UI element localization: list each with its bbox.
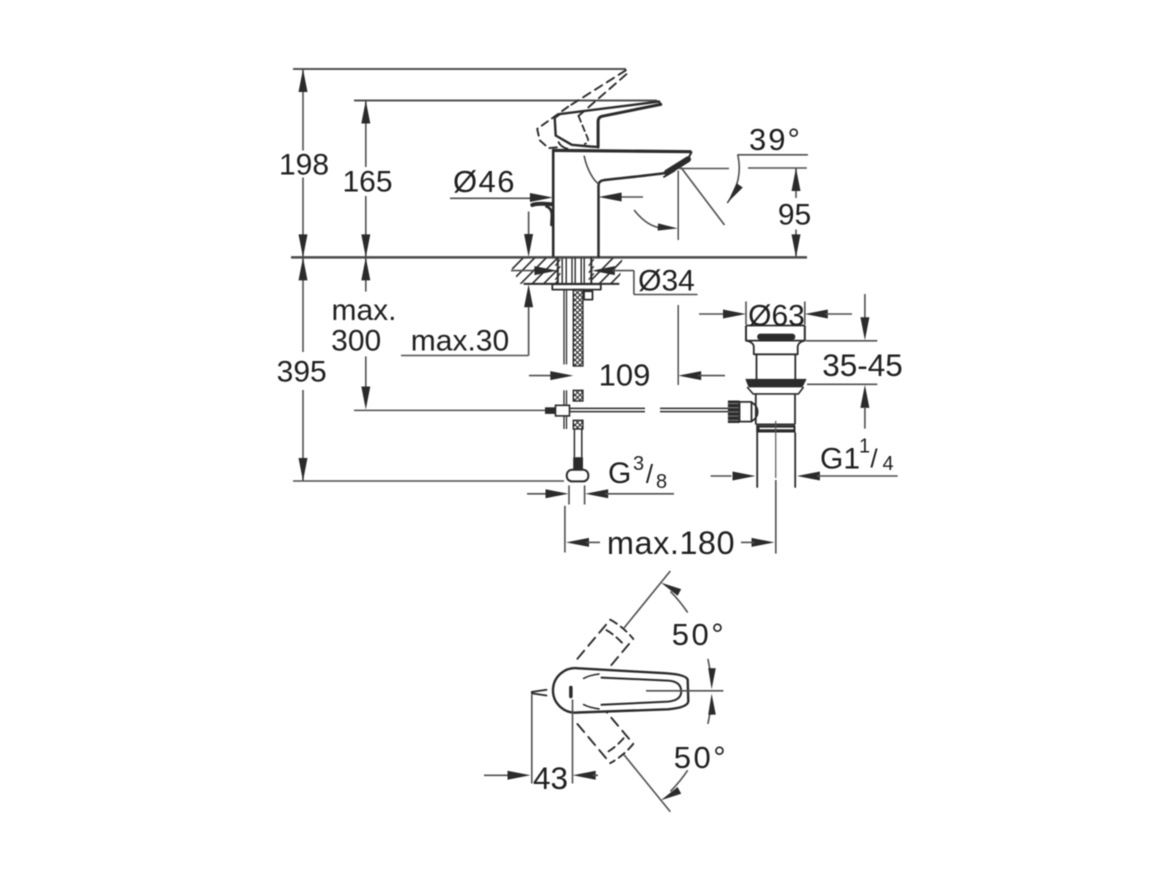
bottom view handle inner outline — [602, 678, 682, 705]
deck hatching right — [586, 257, 649, 286]
39 degree arc with arrow — [728, 155, 743, 203]
svg-text:/: / — [646, 459, 654, 489]
label 39 degrees with underline — [738, 122, 808, 157]
svg-text:1: 1 — [859, 436, 870, 458]
label 50 degrees upper — [672, 617, 726, 652]
water stream diagonal line — [681, 168, 725, 226]
reference line: mounting deck surface — [291, 256, 807, 259]
hose compression fitting — [573, 457, 583, 470]
dimension 43 arrows — [484, 771, 598, 780]
dimension 395 vertical line with arrows — [299, 257, 308, 481]
dimension arrows Ø34 at shank — [511, 266, 698, 294]
faucet spout underside and body right edge — [599, 173, 667, 257]
hose end tube — [574, 429, 581, 457]
svg-text:300: 300 — [331, 325, 381, 358]
label max. 300 — [331, 294, 396, 358]
deck slab hatched left part — [524, 283, 620, 285]
label 165 — [342, 166, 392, 199]
drain knurled adjuster knob — [728, 401, 740, 424]
label 109 — [599, 358, 651, 393]
threaded shank through deck — [555, 257, 594, 284]
lower 50 degree boundary line — [624, 755, 670, 812]
faucet body left edge — [552, 150, 555, 256]
svg-text:/: / — [870, 444, 878, 474]
drain body tube — [756, 394, 795, 424]
dimension 43 extension lines — [532, 695, 573, 784]
svg-text:35-45: 35-45 — [822, 347, 903, 383]
svg-text:G1: G1 — [820, 443, 860, 476]
mounting nut — [584, 291, 593, 299]
dimension max.300 vertical line with arrows — [361, 257, 370, 409]
label G1 1/4 — [820, 436, 894, 476]
drain coupling dark band — [756, 425, 795, 432]
handle lever bottom edge and stem — [598, 104, 661, 147]
reference line: top of raised handle (198) — [293, 68, 626, 70]
label max.180 — [607, 525, 735, 561]
svg-text:43: 43 — [533, 760, 568, 796]
drain upper body — [757, 354, 796, 379]
drain cap dark — [757, 334, 795, 340]
drain rubber washer dark band — [746, 379, 806, 387]
drain adjuster housing — [740, 402, 758, 422]
svg-text:max.30: max.30 — [411, 325, 509, 358]
dimension 165 vertical line with arrows — [361, 101, 370, 258]
label G3/8 — [608, 453, 667, 493]
reference line 95 top — [748, 167, 807, 169]
label max.30 — [411, 325, 509, 358]
bottom view front tab — [532, 690, 547, 696]
faucet spout tip face — [687, 152, 692, 161]
svg-text:50°: 50° — [672, 617, 726, 652]
raised handle grip dashed outline — [537, 107, 568, 149]
spout swivel arc with arrow — [635, 211, 678, 231]
pop-up pull rod vertical — [564, 290, 567, 429]
svg-text:165: 165 — [342, 166, 392, 199]
svg-text:198: 198 — [279, 149, 329, 182]
dimension 109 arrows — [529, 371, 725, 380]
upper 50 degree boundary line — [624, 571, 670, 628]
mounting flange plate under deck — [552, 284, 601, 289]
svg-text:Ø46: Ø46 — [453, 164, 516, 199]
svg-text:max.180: max.180 — [607, 525, 735, 561]
svg-text:max.: max. — [331, 294, 396, 327]
label 395 — [277, 356, 327, 389]
upper 50 degree arc with arrows — [661, 583, 716, 690]
drain centerline — [775, 421, 777, 478]
bottom view handle outline keyhole shape — [553, 668, 688, 713]
reference lines 35-45 — [806, 341, 877, 385]
svg-text:4: 4 — [882, 453, 893, 475]
bottom view handle junction curves — [584, 674, 599, 709]
drain neck — [746, 341, 805, 355]
bottom view dashed handle rotated down 50 — [577, 705, 633, 763]
label 35-45 — [822, 347, 903, 383]
label 198 — [279, 149, 329, 182]
handle grip outline — [555, 114, 598, 147]
dimension max.30 arrows for deck thickness — [401, 212, 533, 356]
svg-text:50°: 50° — [674, 740, 728, 775]
drain washer seat — [748, 388, 804, 394]
hose G3/8 nut — [567, 470, 589, 482]
pop-up horizontal rod left end cap — [545, 407, 556, 414]
bottom view centerline — [646, 690, 723, 692]
reference line: hose end level (395 bottom) — [293, 480, 564, 482]
svg-text:Ø63: Ø63 — [748, 300, 805, 333]
faucet neck curve — [584, 156, 598, 183]
reference line: pop-up rod level — [354, 409, 545, 411]
handle grip inner dashed edge — [579, 116, 589, 144]
faucet aerator — [664, 159, 688, 177]
dimension Ø63 extension lines and arrows — [699, 302, 852, 325]
handle lever top edge — [560, 102, 659, 115]
bottom view dashed handle rotated up 50 — [577, 620, 633, 678]
svg-text:G: G — [608, 457, 631, 490]
label Ø63 — [748, 300, 805, 333]
lower 50 degree arc with arrows — [661, 694, 716, 801]
svg-text:109: 109 — [599, 358, 651, 393]
raised handle dashed lower edge — [578, 74, 626, 116]
pop-up rod clamp block — [556, 405, 570, 416]
pop-up horizontal rod — [570, 408, 729, 411]
dimension G3/8 ticks and arrows — [527, 485, 674, 504]
reference line: top of handle lowered (165) — [354, 100, 657, 102]
label Ø46 with leader — [450, 164, 643, 202]
dimension max.180 with extension lines — [565, 480, 776, 554]
svg-text:95: 95 — [778, 199, 811, 232]
bottom view center mark — [569, 686, 573, 698]
raised handle dashed upper edge — [568, 70, 626, 106]
dimension G1-1/4 arrows — [711, 472, 898, 481]
extension line from aerator outlet — [677, 171, 679, 386]
dimension 95 vertical line with arrows — [792, 168, 801, 257]
faucet body top edge — [552, 150, 691, 151]
label 95 — [778, 199, 811, 232]
label 50 degrees lower — [674, 740, 728, 775]
handle grip lower-left curve — [559, 142, 568, 149]
svg-text:3: 3 — [633, 453, 644, 475]
handle lever tip — [659, 102, 661, 105]
dimension 198 vertical line with arrows — [299, 69, 308, 257]
horizontal leg at spout outlet — [679, 168, 729, 170]
drain tailpipe — [757, 433, 795, 488]
svg-text:395: 395 — [277, 356, 327, 389]
drain flange rim — [746, 326, 805, 341]
label 43 — [533, 760, 568, 796]
svg-text:Ø34: Ø34 — [638, 265, 695, 298]
dimension 35-45 arrows — [860, 294, 869, 429]
svg-text:39°: 39° — [749, 122, 802, 157]
svg-text:8: 8 — [656, 471, 667, 493]
faucet pull-rod knob at body left — [532, 204, 552, 225]
label Ø34 — [638, 265, 695, 298]
